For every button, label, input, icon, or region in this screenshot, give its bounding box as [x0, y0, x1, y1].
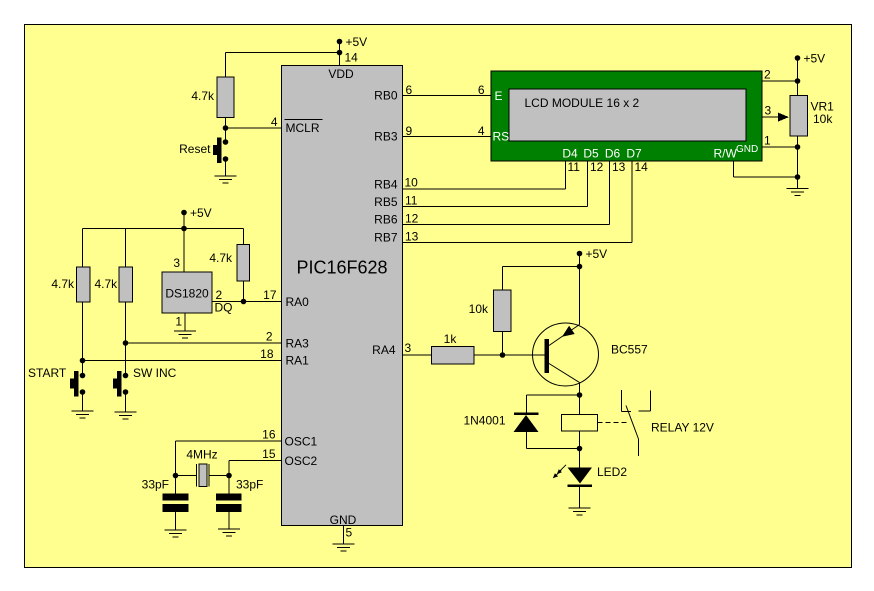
svg-text:13: 13 [612, 160, 626, 174]
svg-text:OSC2: OSC2 [285, 454, 318, 468]
svg-text:17: 17 [263, 288, 277, 302]
svg-text:10k: 10k [469, 302, 489, 316]
svg-text:3: 3 [765, 104, 772, 118]
svg-text:RB7: RB7 [374, 231, 398, 245]
svg-text:R/W: R/W [714, 147, 738, 161]
svg-text:13: 13 [405, 230, 419, 244]
svg-text:RB3: RB3 [374, 130, 398, 144]
svg-text:RELAY 12V: RELAY 12V [651, 421, 714, 435]
svg-text:5: 5 [346, 526, 353, 540]
svg-text:+5V: +5V [346, 35, 368, 49]
svg-text:33pF: 33pF [236, 478, 263, 492]
svg-text:+5V: +5V [190, 206, 212, 220]
svg-text:4.7k: 4.7k [51, 277, 75, 291]
svg-text:RA3: RA3 [286, 336, 310, 350]
svg-text:4: 4 [271, 115, 278, 129]
svg-text:2: 2 [266, 330, 273, 344]
svg-text:11: 11 [568, 160, 581, 174]
svg-text:GND: GND [330, 513, 357, 527]
svg-text:RA0: RA0 [286, 295, 310, 309]
svg-text:RB6: RB6 [374, 213, 398, 227]
svg-text:VDD: VDD [328, 67, 354, 81]
svg-text:33pF: 33pF [142, 478, 169, 492]
svg-text:RB4: RB4 [374, 178, 398, 192]
svg-text:GND: GND [736, 144, 758, 155]
svg-text:LCD MODULE 16 x 2: LCD MODULE 16 x 2 [525, 96, 640, 110]
svg-text:Reset: Reset [179, 142, 211, 156]
svg-text:12: 12 [405, 212, 419, 226]
svg-text:11: 11 [405, 194, 418, 208]
svg-text:6: 6 [406, 83, 413, 97]
svg-text:OSC1: OSC1 [285, 434, 318, 448]
svg-text:4MHz: 4MHz [186, 448, 217, 462]
svg-text:10: 10 [405, 176, 419, 190]
svg-text:2: 2 [764, 68, 771, 82]
svg-text:DS1820: DS1820 [165, 287, 209, 301]
svg-text:1: 1 [764, 134, 771, 148]
svg-text:RA1: RA1 [286, 354, 310, 368]
svg-text:RB0: RB0 [374, 89, 398, 103]
svg-text:14: 14 [345, 51, 359, 65]
svg-text:E: E [495, 89, 503, 103]
svg-text:3: 3 [405, 341, 412, 355]
svg-text:MCLR: MCLR [286, 121, 320, 135]
svg-text:LED2: LED2 [597, 465, 627, 479]
svg-text:4.7k: 4.7k [191, 89, 215, 103]
svg-text:14: 14 [635, 160, 649, 174]
svg-text:+5V: +5V [586, 247, 608, 261]
svg-text:4: 4 [478, 124, 485, 138]
svg-text:9: 9 [406, 124, 413, 138]
svg-text:RS: RS [493, 130, 510, 144]
svg-text:10k: 10k [813, 112, 833, 126]
svg-text:4.7k: 4.7k [95, 277, 119, 291]
svg-text:BC557: BC557 [611, 343, 648, 357]
svg-text:6: 6 [478, 83, 485, 97]
svg-text:12: 12 [590, 160, 604, 174]
svg-text:+5V: +5V [804, 52, 826, 66]
svg-text:PIC16F628: PIC16F628 [296, 258, 387, 278]
svg-text:RA4: RA4 [372, 343, 396, 357]
svg-text:RB5: RB5 [374, 195, 398, 209]
svg-text:18: 18 [260, 347, 274, 361]
svg-text:1k: 1k [444, 332, 458, 346]
svg-text:D7: D7 [626, 147, 642, 161]
svg-text:D5: D5 [583, 147, 599, 161]
svg-text:D4: D4 [562, 147, 578, 161]
svg-text:3: 3 [173, 256, 180, 270]
svg-text:SW INC: SW INC [133, 366, 177, 380]
svg-text:1: 1 [175, 315, 182, 329]
svg-text:15: 15 [262, 447, 276, 461]
svg-text:DQ: DQ [215, 301, 233, 315]
svg-text:16: 16 [262, 428, 276, 442]
svg-text:4.7k: 4.7k [209, 251, 233, 265]
svg-text:START: START [28, 366, 67, 380]
svg-text:1N4001: 1N4001 [463, 414, 505, 428]
svg-text:D6: D6 [605, 147, 621, 161]
